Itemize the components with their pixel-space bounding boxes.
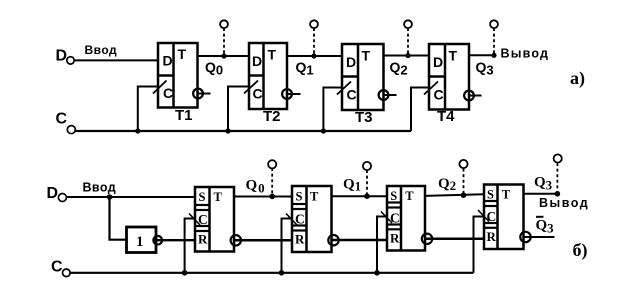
pin C1 dynamic-input slash T3: [337, 82, 351, 95]
node junction D branch: [107, 194, 113, 200]
node Q3 terminal circle (bottom): [554, 154, 562, 162]
svg-text:C: C: [163, 85, 173, 101]
node junction bus/T2: [225, 128, 230, 133]
wire R chain DD1 to DD2: [234, 239, 292, 242]
pin inverted output T1: [193, 89, 210, 99]
wire dashed Q2 test lead: [407, 28, 409, 56]
pin inverted output DD4: [520, 232, 530, 242]
svg-text:Q3: Q3: [534, 175, 553, 193]
pin inverter inverted output: [153, 236, 162, 245]
svg-text:T3: T3: [355, 109, 373, 126]
node Q0 junction: [221, 53, 226, 58]
flip-flop U3 (T3, D-type): [342, 44, 384, 110]
node Q0 terminal circle: [220, 20, 228, 28]
svg-text:S: S: [487, 187, 494, 201]
wire Q0 : DD1 out to DD2 S: [234, 196, 292, 198]
pin inverted output DD3: [422, 234, 432, 244]
node Q1 junction: [311, 53, 316, 58]
svg-text:T: T: [405, 189, 414, 203]
wire R chain DD3 to DD4: [425, 238, 484, 241]
svg-text:C: C: [56, 111, 68, 128]
svg-text:S: S: [199, 190, 206, 204]
svg-text:T: T: [310, 190, 319, 204]
svg-text:T: T: [214, 190, 223, 204]
node D (input terminal, top): [56, 47, 75, 64]
flip-flop DD1 (RS-type): [195, 187, 234, 252]
wire dashed Q2 test lead (bottom): [463, 169, 465, 196]
wire clock bus (top): [75, 130, 411, 132]
wire Q2 : DD3 out to DD4 S: [425, 194, 484, 196]
svg-text:T4: T4: [437, 108, 455, 125]
svg-text:Вывод: Вывод: [501, 47, 550, 61]
svg-text:D: D: [47, 185, 59, 202]
svg-text:D: D: [163, 53, 173, 69]
pin C1 dynamic-input slash T4: [424, 82, 438, 95]
inverter DD5 (logic 1 element): [127, 227, 157, 253]
pin C1 dynamic-input slash T1: [153, 81, 167, 94]
node Q2 terminal circle (bottom): [459, 160, 467, 168]
wire clock bus (bottom): [70, 272, 474, 274]
wire dashed Q1 test lead: [313, 28, 315, 56]
wire C bend to DD2: [282, 219, 293, 273]
svg-text:1: 1: [136, 234, 144, 250]
svg-text:Q1: Q1: [343, 177, 361, 194]
wire D terminal to T1 D pin: [74, 59, 158, 61]
pin C dynamic-input slash DD1: [189, 214, 200, 226]
svg-text:Ввод: Ввод: [83, 181, 117, 195]
node junction bus/DD1: [182, 270, 188, 276]
pin inverted output T2: [282, 89, 300, 99]
wire Q2 : T3 out to T4 D: [384, 55, 430, 57]
svg-text:C: C: [347, 87, 357, 103]
svg-text:а): а): [570, 68, 585, 89]
wire dashed Q3 test lead: [493, 28, 495, 55]
wire Q3 : T4 out to output terminal: [469, 54, 495, 56]
wire Q1 : T2 out to T3 D: [287, 55, 342, 57]
flip-flop U1 (T1, D-type): [158, 43, 198, 108]
node Q0 terminal circle (bottom): [268, 160, 276, 168]
svg-text:D: D: [346, 54, 356, 70]
node Q0 junction (bottom): [269, 194, 275, 200]
svg-text:Q0: Q0: [205, 59, 223, 78]
node Q1 terminal circle: [310, 20, 318, 28]
wire dashed Q1 test lead (bottom): [366, 170, 368, 196]
flip-flop DD3 (RS-type): [387, 186, 425, 251]
node C (clock terminal, top): [56, 111, 76, 134]
wire dashed Q0 test lead: [223, 28, 225, 56]
svg-text:Q1: Q1: [296, 59, 314, 78]
pin C dynamic-input slash DD3: [381, 212, 392, 224]
pin inverted output DD1: [231, 235, 241, 245]
svg-text:R: R: [487, 229, 497, 244]
node C (clock terminal, bottom): [51, 259, 70, 277]
pin inverted output T3: [379, 90, 397, 100]
svg-text:Q2: Q2: [390, 59, 408, 78]
svg-text:C: C: [253, 86, 263, 102]
wire C riser to T2: [228, 87, 249, 132]
svg-text:T2: T2: [263, 108, 281, 125]
svg-text:R: R: [295, 232, 305, 247]
svg-text:R: R: [198, 232, 208, 247]
node Q2 junction: [405, 53, 410, 58]
pin C dynamic-input slash DD2: [286, 214, 297, 226]
pin inverted output T4: [464, 91, 481, 101]
svg-text:R: R: [390, 231, 400, 246]
svg-text:C: C: [487, 209, 497, 224]
node junction bus/DD2: [279, 270, 285, 276]
svg-text:D: D: [252, 53, 262, 69]
wire D terminal to DD1 S pin: [66, 196, 195, 198]
svg-text:Q3: Q3: [476, 59, 494, 78]
wire Q1 : DD2 out to DD3 S: [332, 195, 388, 197]
wire inverter out to DD1 R pin: [156, 239, 196, 241]
svg-text:T: T: [449, 48, 458, 64]
svg-text:S: S: [296, 190, 303, 204]
node junction bus/T1: [135, 128, 140, 133]
svg-text:S: S: [390, 189, 397, 203]
svg-text:Q3: Q3: [536, 218, 555, 236]
node Q3 junction (bottom): [555, 191, 561, 197]
flip-flop U2 (T2, D-type): [249, 43, 287, 109]
wire C bend to DD1: [185, 219, 195, 273]
node Q1 terminal circle (bottom): [363, 162, 371, 170]
wire C riser to T4: [411, 88, 429, 132]
node Q1 junction (bottom): [364, 193, 370, 199]
svg-text:D: D: [433, 54, 443, 70]
svg-text:T: T: [268, 47, 277, 63]
node Q3 terminal circle: [490, 20, 498, 28]
svg-text:C: C: [434, 87, 444, 103]
pin inverted output DD2: [328, 235, 338, 245]
svg-text:T1: T1: [175, 107, 193, 124]
wire Q0 : T1 out to T2 D: [198, 55, 249, 57]
svg-text:T: T: [178, 46, 187, 62]
wire C bend to DD3: [377, 217, 387, 273]
wire Q3 : DD4 out to output (bottom): [524, 193, 561, 195]
node junction bus/T3: [321, 128, 326, 133]
flip-flop DD4 (RS-type): [484, 185, 524, 250]
wire C riser to T3: [323, 88, 342, 132]
node Q3 junction: [491, 53, 496, 58]
svg-text:C: C: [51, 259, 63, 276]
label notQ3: [536, 217, 555, 236]
pin C dynamic-input slash DD4: [478, 210, 489, 222]
svg-text:Вывод: Вывод: [539, 196, 589, 210]
svg-text:T: T: [502, 187, 511, 201]
svg-text:Ввод: Ввод: [85, 43, 118, 57]
flip-flop U4 (T4, D-type): [429, 44, 469, 110]
flip-flop DD2 (RS-type): [292, 186, 332, 252]
wire dashed Q3 test lead (bottom): [556, 163, 558, 194]
node Q2 junction (bottom): [461, 192, 467, 198]
node D (input terminal, bottom): [47, 185, 67, 202]
wire C bend to DD4: [474, 217, 485, 273]
wire inverted Q3 stub: [524, 236, 555, 238]
wire branch down to inverter input: [110, 197, 127, 240]
svg-text:D: D: [56, 47, 68, 64]
svg-text:T: T: [362, 48, 371, 64]
node junction bus/DD3: [374, 270, 380, 276]
svg-text:Q2: Q2: [438, 176, 456, 193]
svg-text:б): б): [573, 240, 588, 261]
svg-text:Q0: Q0: [246, 178, 265, 196]
node Q2 terminal circle: [404, 20, 412, 28]
wire dashed Q0 test lead (bottom): [271, 168, 273, 196]
wire C riser to T1: [138, 87, 158, 132]
pin C1 dynamic-input slash T2: [244, 81, 258, 94]
wire R chain DD2 to DD3: [332, 239, 388, 242]
